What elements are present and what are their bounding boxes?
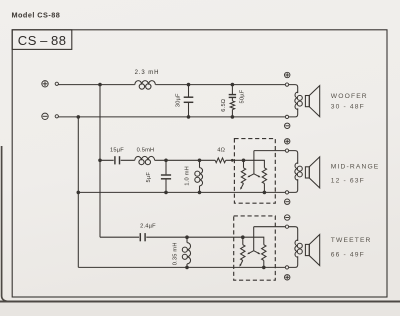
midrange voice coil	[289, 151, 298, 164]
node lpad input tweeter	[241, 235, 245, 239]
variable resistor VR2 shunt	[262, 168, 266, 184]
node 0.35mH tap	[185, 235, 189, 239]
capacitor C1 30uF shunt	[188, 85, 190, 117]
input terminal plus	[42, 81, 48, 87]
scan artifact: page left edge line	[2, 146, 9, 301]
node VR2 bottom	[263, 191, 267, 195]
tweeter voice coil	[289, 227, 298, 241]
variable resistor VR3 series	[241, 245, 245, 261]
svg-text:4Ω: 4Ω	[217, 148, 225, 154]
woofer speaker symbol	[305, 96, 309, 107]
inductor L4 0.35mH shunt	[186, 237, 188, 267]
node lpad output to speaker	[254, 150, 285, 152]
svg-text:CS – 88: CS – 88	[18, 33, 67, 48]
svg-text:WOOFER: WOOFER	[331, 93, 368, 100]
scan artifact: page bottom edge line	[0, 146, 400, 302]
capacitor C5 2.4uF	[139, 233, 141, 241]
svg-text:0.35 mH: 0.35 mH	[173, 242, 179, 265]
svg-text:2.3 mH: 2.3 mH	[135, 70, 160, 76]
capacitor C2 50uF	[231, 85, 233, 101]
node VR4 bottom	[262, 266, 266, 270]
resistor R2 4ohm	[215, 158, 226, 163]
input terminal minus	[42, 113, 48, 119]
wire minus bus down	[77, 117, 79, 268]
tweeter minus terminal	[285, 215, 290, 220]
svg-text:5µF: 5µF	[146, 172, 152, 183]
svg-text:TWEETER: TWEETER	[331, 237, 372, 244]
wiper arm	[248, 151, 259, 177]
wire tweeter return row	[78, 266, 285, 268]
svg-text:0.5mH: 0.5mH	[137, 147, 155, 153]
node 5uF tap	[164, 159, 168, 163]
tweeter speaker symbol	[305, 244, 309, 255]
variable resistor VR4 shunt	[262, 245, 266, 261]
midrange minus terminal	[285, 199, 290, 204]
woofer minus terminal	[285, 123, 290, 128]
svg-text:66 - 49F: 66 - 49F	[331, 251, 365, 258]
node junction top rail to midrange feed	[98, 83, 102, 87]
inductor L3 1.0mH shunt	[199, 160, 201, 192]
woofer voice coil	[289, 85, 298, 94]
svg-text:6.5Ω: 6.5Ω	[221, 99, 227, 112]
level control box tweeter	[234, 216, 276, 280]
wire tweeter input row	[100, 236, 243, 238]
wire top rail from + input to woofer	[59, 84, 286, 86]
variable resistor VR1 series	[241, 168, 245, 184]
wire plus bus down to midrange and tweeter	[99, 85, 101, 238]
inductor L2 0.5mH	[135, 156, 155, 160]
node before level control	[231, 159, 234, 162]
wire midrange input row	[100, 159, 244, 161]
svg-text:30µF: 30µF	[176, 93, 182, 107]
wire bottom rail from - input to woofer	[59, 116, 286, 118]
node lpad input	[242, 159, 246, 163]
svg-text:30 - 48F: 30 - 48F	[331, 104, 365, 111]
tweeter plus terminal	[285, 275, 290, 280]
woofer plus terminal	[285, 72, 290, 77]
node 50uF branch tap	[231, 83, 235, 87]
svg-text:Model CS-88: Model CS-88	[12, 11, 61, 20]
wire lpad top link tweeter	[243, 237, 264, 245]
node bottom rail to minus bus	[77, 115, 81, 119]
svg-text:50µF: 50µF	[240, 89, 246, 103]
wire lpad top link	[244, 160, 265, 168]
svg-text:12 - 63F: 12 - 63F	[331, 178, 365, 185]
svg-text:1.0 mH: 1.0 mH	[184, 166, 190, 186]
wire midrange return row	[78, 191, 285, 193]
capacitor C3 15uF	[114, 156, 116, 164]
node 30uF tap	[187, 83, 191, 87]
outer schematic border	[12, 30, 387, 297]
capacitor C4 5uF shunt	[165, 160, 167, 192]
midrange plus terminal	[285, 139, 290, 144]
node midrange feed	[98, 159, 102, 163]
wire lpad output tweeter	[254, 226, 286, 228]
svg-text:15µF: 15µF	[110, 147, 124, 153]
svg-text:MID-RANGE: MID-RANGE	[331, 163, 380, 170]
svg-text:2.4µF: 2.4µF	[140, 224, 156, 230]
node 1.0mH tap	[198, 159, 202, 163]
midrange speaker symbol	[305, 167, 309, 178]
CS-88 title box	[12, 30, 72, 50]
inductor L1 2.3mH	[135, 81, 155, 85]
level control box midrange	[234, 139, 275, 204]
node midrange return	[77, 191, 81, 195]
resistor R1 6.5ohm	[230, 101, 234, 110]
wiper arm tweeter	[248, 227, 259, 254]
